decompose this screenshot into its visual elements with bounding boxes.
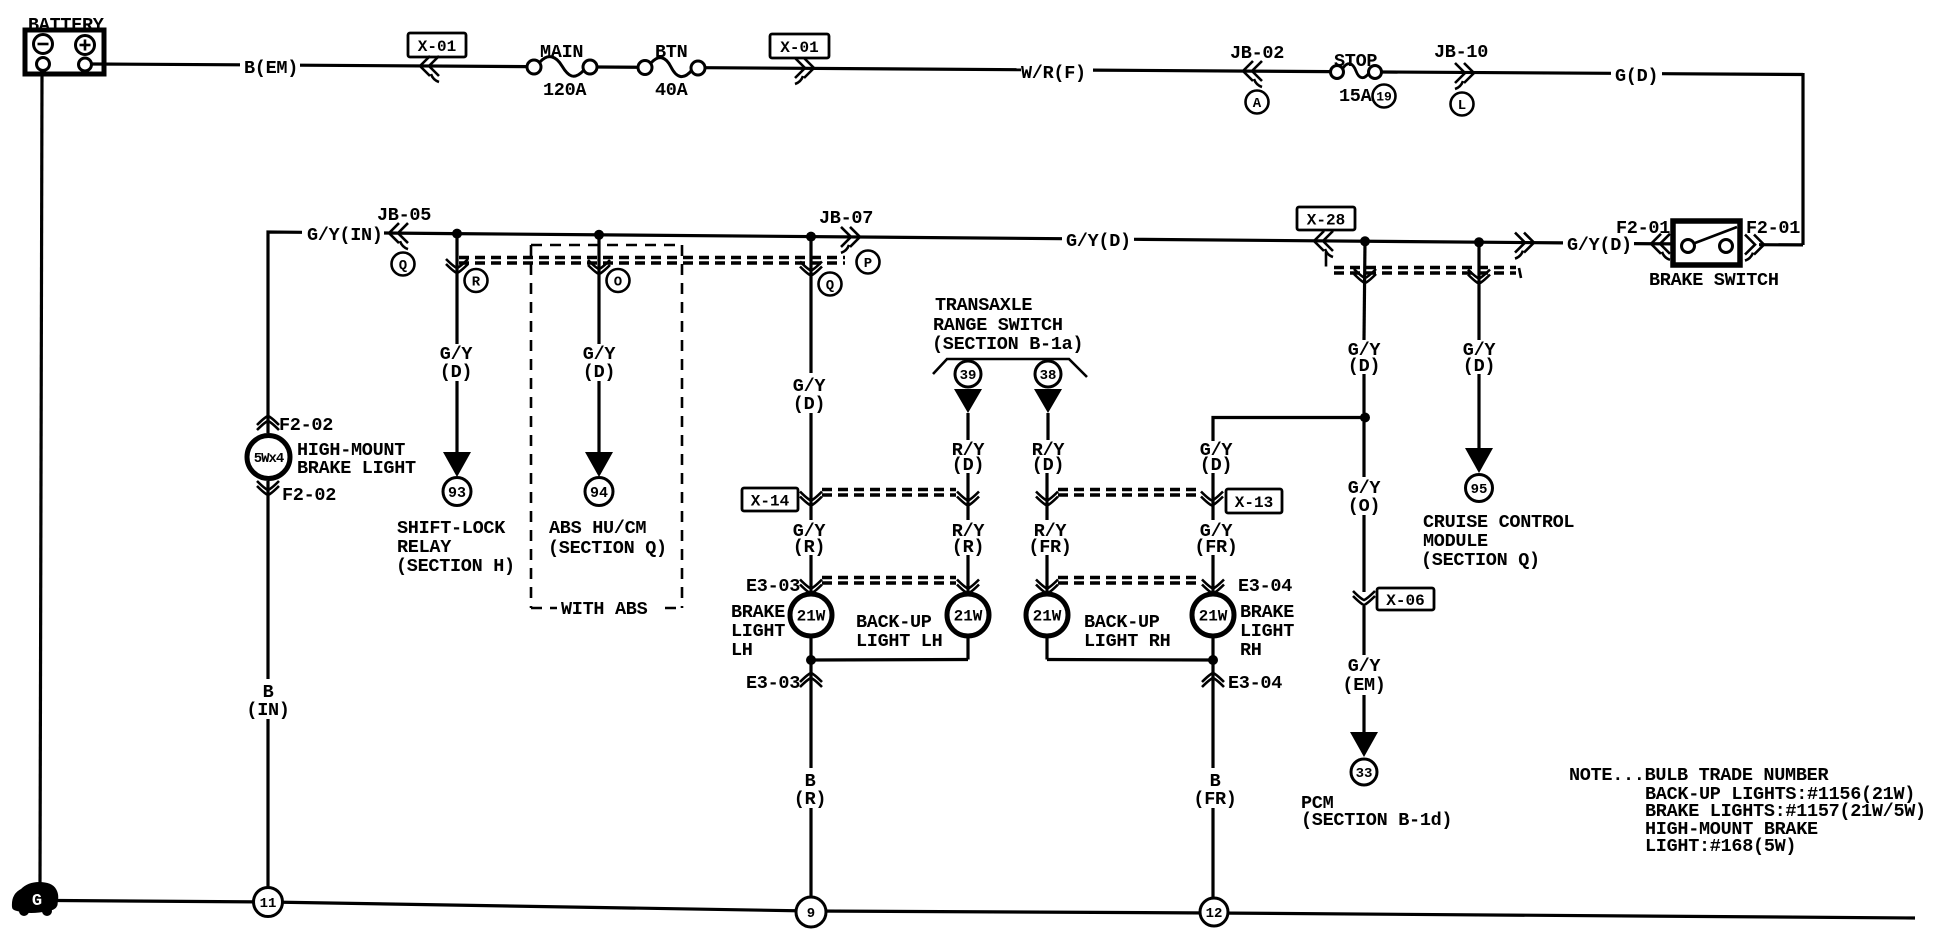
arrow from range switch pin 38: [1034, 389, 1062, 440]
connector X-14: [742, 488, 822, 511]
wire G/Y(EM) to PCM: [1362, 606, 1365, 732]
node A: [1246, 91, 1269, 114]
svg-text:(R): (R): [952, 537, 984, 558]
svg-text:E3-04: E3-04: [1228, 673, 1282, 694]
svg-text:40A: 40A: [655, 80, 689, 101]
svg-text:B(EM): B(EM): [244, 58, 298, 79]
svg-text:21W: 21W: [954, 608, 983, 626]
svg-text:(SECTION B-1a): (SECTION B-1a): [932, 334, 1083, 355]
wire G/Y(D) cruise branch: [1477, 242, 1480, 448]
svg-text:38: 38: [1040, 368, 1057, 384]
svg-text:NOTE...BULB TRADE NUMBER: NOTE...BULB TRADE NUMBER: [1569, 765, 1829, 786]
svg-text:(D): (D): [793, 394, 825, 415]
svg-text:O: O: [614, 275, 622, 291]
pin 39 transaxle range switch: [955, 361, 981, 387]
svg-text:W/R(F): W/R(F): [1021, 63, 1086, 84]
svg-text:X-28: X-28: [1307, 211, 1345, 229]
svg-text:(D): (D): [1463, 356, 1495, 377]
svg-text:X-01: X-01: [418, 38, 456, 56]
label R/Y (D) back-up LH: [952, 440, 986, 476]
svg-text:WITH ABS: WITH ABS: [561, 599, 648, 620]
svg-text:21W: 21W: [1033, 608, 1062, 626]
connector E3-04 (upper): [1202, 576, 1292, 597]
connector E3-04 (lower): [1202, 673, 1282, 694]
harness dashed run X-13: [1058, 490, 1200, 496]
wire G/Y(D) PCM branch upper: [1364, 241, 1365, 413]
label G/Y (D) PCM branch: [1348, 340, 1382, 377]
wire R/Y(FR) back-up RH: [1045, 555, 1048, 592]
wire battery negative to body ground: [40, 74, 42, 884]
svg-text:BRAKE LIGHT: BRAKE LIGHT: [297, 458, 416, 479]
svg-text:X-13: X-13: [1235, 494, 1273, 512]
brake light LH bulb 21W: [790, 594, 832, 636]
svg-text:G/Y(D): G/Y(D): [1066, 231, 1131, 252]
svg-text:LIGHT: LIGHT: [731, 621, 785, 642]
svg-text:(R): (R): [793, 537, 825, 558]
svg-text:(D): (D): [1032, 455, 1064, 476]
wire G/Y(D) to ABS HU/CM: [597, 235, 600, 453]
wire G/Y(D) brake light RH feed: [1213, 418, 1365, 521]
fuse BTN 40A: [638, 42, 705, 101]
svg-text:G: G: [32, 892, 42, 911]
label G/Y (D) cruise: [1463, 340, 1497, 377]
junction box JB-05: [377, 205, 431, 249]
svg-text:(D): (D): [1348, 356, 1380, 377]
node R (shift-lock branch): [465, 269, 488, 292]
svg-text:BRAKE: BRAKE: [731, 602, 785, 623]
label BRAKE LIGHT LH: [731, 602, 785, 661]
label BACK-UP LIGHT LH: [856, 612, 942, 652]
label B (FR): [1193, 771, 1236, 810]
svg-text:(D): (D): [440, 362, 472, 383]
WITH ABS option dashed box: [531, 245, 682, 620]
junction node cruise branch: [1474, 237, 1484, 247]
node P (JB-07): [857, 251, 880, 274]
label B (IN): [246, 682, 289, 721]
svg-text:E3-04: E3-04: [1238, 576, 1292, 597]
svg-text:CRUISE CONTROL: CRUISE CONTROL: [1423, 512, 1574, 533]
connector F2-01 (left): [1616, 218, 1670, 260]
svg-text:21W: 21W: [1199, 608, 1228, 626]
wire back-up RH to junction: [1047, 636, 1213, 660]
svg-text:15A: 15A: [1339, 86, 1373, 107]
pin 33 PCM: [1351, 759, 1377, 785]
svg-text:BRAKE SWITCH: BRAKE SWITCH: [1649, 270, 1779, 291]
label G/Y (D) brake LH: [793, 376, 827, 415]
node Q (JB-05): [392, 253, 415, 276]
label R/Y (R): [952, 521, 986, 558]
svg-text:95: 95: [1471, 482, 1488, 498]
label G/Y (R): [793, 521, 827, 558]
svg-text:(O): (O): [1348, 496, 1380, 517]
connector chevron cruise branch: [1468, 270, 1490, 284]
battery: [25, 15, 105, 74]
svg-text:BACK-UP: BACK-UP: [856, 612, 932, 633]
junction node E3-04 ground: [1208, 655, 1218, 665]
svg-text:Q: Q: [826, 278, 834, 294]
pin 38 transaxle range switch: [1035, 361, 1061, 387]
node L: [1451, 93, 1474, 116]
arrow from range switch pin 39: [954, 389, 982, 440]
wire G/Y(R) to E3-03: [809, 555, 812, 592]
svg-text:ABS HU/CM: ABS HU/CM: [549, 518, 646, 539]
wire R/Y(R) back-up LH: [966, 555, 969, 592]
wire G/Y(IN) brake light feed bus: [268, 232, 453, 420]
svg-text:19: 19: [1376, 90, 1392, 105]
svg-text:BRAKE: BRAKE: [1240, 602, 1294, 623]
svg-text:RANGE SWITCH: RANGE SWITCH: [933, 315, 1063, 336]
svg-text:JB-02: JB-02: [1230, 43, 1284, 64]
wire back-up LH to junction: [811, 636, 968, 660]
wire to brake switch: [1634, 242, 1673, 245]
ground node 11: [254, 888, 283, 917]
svg-text:(SECTION H): (SECTION H): [396, 556, 515, 577]
svg-text:LIGHT RH: LIGHT RH: [1084, 631, 1170, 652]
connector chevron back-up LH at E3-03 run: [957, 580, 979, 594]
harness dashed run X-14: [822, 490, 956, 496]
label R/Y (FR): [1028, 521, 1071, 558]
label G/Y (O): [1348, 478, 1382, 517]
label SHIFT-LOCK RELAY (SECTION H): [396, 518, 515, 577]
label G(D): [1615, 66, 1658, 87]
svg-text:F2-02: F2-02: [279, 415, 333, 436]
svg-text:(IN): (IN): [246, 700, 289, 721]
wire G/Y(D) bus JB-07 to X-28: [1134, 239, 1563, 243]
wire G(D) JB-10 to brake switch: [1382, 72, 1803, 245]
arrow into shift-lock relay: [443, 452, 471, 477]
label G/Y (FR): [1194, 521, 1237, 558]
wire G/Y(D) brake light LH upper: [809, 237, 812, 520]
junction node brake RH feed: [1360, 413, 1370, 423]
svg-text:R: R: [472, 275, 481, 291]
svg-text:F2-01: F2-01: [1616, 218, 1670, 239]
connector X-28: [1297, 207, 1355, 267]
wire B(EM) battery to X-01: [91, 64, 527, 67]
label R/Y (D) back-up RH: [1032, 440, 1066, 476]
body ground G: [12, 882, 58, 916]
svg-text:12: 12: [1206, 906, 1223, 922]
svg-text:(FR): (FR): [1194, 537, 1237, 558]
svg-text:(D): (D): [1200, 455, 1232, 476]
wire B(R) to ground: [809, 690, 812, 898]
connector chevron ABS branch: [588, 260, 610, 274]
svg-text:RELAY: RELAY: [397, 537, 452, 558]
harness dashed run E3-04: [1058, 578, 1201, 584]
label B (R): [794, 771, 826, 810]
svg-text:(R): (R): [794, 789, 826, 810]
junction box JB-07: [819, 208, 873, 253]
arrow into PCM: [1350, 732, 1378, 757]
svg-text:TRANSAXLE: TRANSAXLE: [935, 295, 1032, 316]
node Q (brake light branch): [819, 273, 842, 296]
svg-text:X-14: X-14: [751, 492, 790, 510]
wire G/Y(D) to shift-lock relay: [455, 234, 458, 453]
label ABS HU/CM (SECTION Q): [548, 518, 667, 559]
label BRAKE LIGHT RH: [1240, 602, 1294, 661]
svg-text:BTN: BTN: [655, 42, 687, 63]
svg-text:LIGHT LH: LIGHT LH: [856, 631, 942, 652]
label PCM (SECTION B-1d): [1301, 793, 1452, 831]
svg-text:(FR): (FR): [1028, 537, 1071, 558]
ground rail wire: [57, 901, 1915, 919]
node O (ABS branch): [607, 269, 630, 292]
node 19: [1373, 85, 1396, 108]
label G/Y (EM): [1342, 656, 1385, 696]
wire G/Y bus JB-05 to JB-07: [453, 234, 1062, 239]
wire B(IN) high-mount brake light branch: [266, 420, 269, 888]
svg-text:120A: 120A: [543, 80, 587, 101]
connector X-01 (left): [408, 33, 466, 82]
svg-text:G/Y: G/Y: [1348, 656, 1382, 677]
connector chevron back-up LH at X-14 run: [957, 492, 979, 506]
harness dashed run along bus (left): [459, 258, 845, 264]
svg-text:BACK-UP: BACK-UP: [1084, 612, 1160, 633]
svg-text:(SECTION B-1d): (SECTION B-1d): [1301, 810, 1452, 831]
label W/R(F): [1021, 63, 1086, 84]
connector chevron shift-lock branch: [446, 259, 468, 273]
svg-text:P: P: [864, 256, 872, 272]
harness dashed run along bus (right): [1334, 268, 1521, 279]
connector E3-03 (upper): [746, 576, 822, 597]
brake light RH bulb 21W: [1192, 594, 1234, 636]
svg-text:JB-10: JB-10: [1434, 42, 1488, 63]
connector F2-02 (lower): [257, 481, 336, 506]
svg-text:9: 9: [807, 906, 815, 922]
svg-text:X-06: X-06: [1386, 592, 1424, 610]
svg-text:(FR): (FR): [1193, 789, 1236, 810]
label B(EM): [244, 58, 298, 79]
junction node E3-03 ground: [806, 655, 816, 665]
svg-text:93: 93: [448, 485, 466, 502]
brake switch SW1: [1649, 221, 1779, 291]
wire R/Y(D) back-up LH: [966, 473, 969, 520]
label G/Y(D) (bus): [1066, 231, 1131, 252]
high-mount brake light bulb 5Wx4: [247, 436, 416, 480]
label CRUISE CONTROL MODULE (SECTION Q): [1421, 512, 1574, 571]
svg-text:LH: LH: [731, 640, 753, 661]
svg-text:94: 94: [590, 485, 608, 502]
back-up light LH bulb 21W: [947, 594, 989, 636]
fuse MAIN 120A: [527, 42, 597, 101]
junction node JB-07 / brake light LH branch: [806, 232, 816, 242]
arrow into cruise control module: [1465, 448, 1493, 473]
svg-text:F2-02: F2-02: [282, 485, 336, 506]
label G/Y (D) ABS: [583, 344, 617, 383]
svg-text:(EM): (EM): [1342, 675, 1385, 696]
connector chevron back-up RH at X-13 run: [1036, 492, 1058, 506]
svg-text:SHIFT-LOCK: SHIFT-LOCK: [397, 518, 506, 539]
arrow into ABS HU/CM: [585, 452, 613, 477]
svg-text:X-01: X-01: [780, 39, 818, 57]
label BACK-UP LIGHT RH: [1084, 612, 1170, 652]
svg-text:A: A: [1253, 96, 1262, 112]
svg-text:(D): (D): [952, 455, 984, 476]
svg-text:LIGHT: LIGHT: [1240, 621, 1294, 642]
svg-text:(SECTION Q): (SECTION Q): [548, 538, 667, 559]
svg-text:39: 39: [960, 368, 977, 384]
junction box JB-10: [1434, 42, 1488, 89]
label G/Y(D) (to brake switch): [1567, 235, 1632, 256]
connector X-06: [1353, 588, 1434, 610]
svg-text:21W: 21W: [797, 608, 826, 626]
svg-text:E3-03: E3-03: [746, 673, 800, 694]
svg-text:RH: RH: [1240, 640, 1262, 661]
back-up light RH bulb 21W: [1026, 594, 1068, 636]
wire G/Y(O) PCM branch: [1362, 422, 1365, 592]
pin 95 cruise control module: [1466, 475, 1493, 502]
wire B(FR) to ground: [1211, 690, 1214, 898]
label G/Y(IN): [307, 225, 383, 246]
wire G/Y(FR) to E3-04: [1211, 555, 1214, 592]
connector F2-02 (upper): [257, 415, 333, 436]
svg-text:JB-07: JB-07: [819, 208, 873, 229]
label G/Y (D) brake RH: [1200, 440, 1234, 476]
svg-text:MODULE: MODULE: [1423, 531, 1488, 552]
junction node ABS branch: [594, 230, 604, 240]
svg-text:(D): (D): [583, 362, 615, 383]
fuse STOP 15A: [1331, 51, 1382, 107]
svg-text:LIGHT:#168(5W): LIGHT:#168(5W): [1645, 836, 1796, 857]
svg-text:Q: Q: [399, 258, 407, 274]
pin 93 shift-lock relay: [443, 478, 471, 506]
svg-text:E3-03: E3-03: [746, 576, 800, 597]
connector F2-01 (right): [1745, 218, 1800, 261]
svg-text:5Wx4: 5Wx4: [254, 451, 284, 467]
connector chevron back-up RH at E3-04 run: [1036, 580, 1058, 594]
connector X-13: [1201, 489, 1282, 513]
junction box JB-02: [1230, 43, 1284, 87]
label G/Y (D) shift-lock: [440, 344, 474, 383]
svg-text:MAIN: MAIN: [540, 42, 583, 63]
svg-text:G/Y(IN): G/Y(IN): [307, 225, 383, 246]
svg-text:G(D): G(D): [1615, 66, 1658, 87]
transaxle range switch: [932, 295, 1087, 377]
inline connector arrow before brake switch: [1515, 233, 1534, 259]
ground node 9: [796, 897, 826, 927]
pin 94 ABS HU/CM: [585, 478, 613, 506]
note: bulb trade numbers: [1569, 765, 1926, 857]
wire W/R(F) to junction box JB-02: [705, 68, 1330, 72]
connector chevron PCM branch: [1354, 269, 1376, 283]
connector X-01 (right): [770, 34, 829, 84]
wire brake light RH to ground node: [1211, 636, 1214, 690]
harness dashed run E3-03: [822, 578, 956, 584]
ground node 12: [1200, 898, 1228, 926]
wire brake light LH to ground node: [809, 636, 812, 690]
svg-text:33: 33: [1356, 766, 1373, 782]
connector chevron brake-light-LH branch: [800, 262, 822, 276]
junction node shift-lock branch: [452, 229, 462, 239]
connector E3-03 (lower): [746, 673, 822, 694]
wire MAIN to BTN: [597, 65, 638, 69]
svg-text:(SECTION Q): (SECTION Q): [1421, 550, 1540, 571]
svg-text:11: 11: [260, 896, 277, 912]
svg-text:JB-05: JB-05: [377, 205, 431, 226]
wire R/Y(D) back-up RH: [1045, 473, 1048, 520]
junction node PCM branch: [1360, 236, 1370, 246]
svg-text:L: L: [1458, 98, 1466, 114]
